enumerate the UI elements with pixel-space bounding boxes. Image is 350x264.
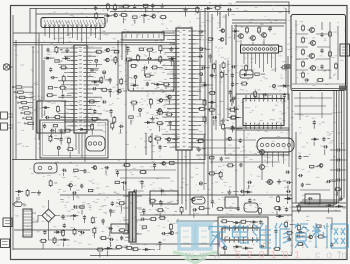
resistor R112 (55, 60, 59, 62)
resistor R173 (50, 179, 52, 181)
filter F1 (86, 136, 105, 151)
diode VD28 (42, 107, 45, 109)
module box A1 (291, 15, 346, 91)
resistor R179 (115, 181, 119, 183)
resistor R123 (125, 59, 127, 61)
wire underCN1L stubs (50, 49, 62, 61)
electrolytic C210 (57, 146, 60, 149)
resistor R119 (95, 51, 97, 53)
resistor R182 (197, 140, 199, 142)
resistor R117 (48, 87, 52, 89)
connector ticks on bus (330, 149, 346, 151)
wire leftCN2 stubs (205, 34, 235, 63)
resistor R120 (114, 51, 118, 53)
wire U3 box (225, 128, 289, 155)
capacitor C172 (109, 238, 111, 240)
capacitor C131 (231, 66, 233, 68)
wire U1 bottom drops (76, 133, 85, 162)
capacitor C179 (80, 232, 82, 234)
capacitor C111 (127, 46, 129, 48)
watermark book icon (179, 225, 193, 249)
capacitor C125 (143, 67, 145, 69)
electrolytic C204 (139, 109, 142, 112)
wire midS stubs (117, 163, 178, 196)
wire topA stubs (107, 5, 169, 24)
svg-text:www.520101.com: www.520101.com (185, 249, 350, 261)
capacitor C165 (301, 183, 303, 185)
diode VD33 (208, 101, 211, 103)
capacitor C139 (233, 107, 235, 109)
capacitor C121 (94, 109, 96, 111)
transistor V65 (228, 137, 232, 141)
capacitor C104 (134, 4, 136, 6)
ground (228, 190, 230, 193)
wire rightO stubs (202, 149, 248, 192)
wire Z1parts stubs (45, 110, 56, 133)
diode VD24 (62, 57, 65, 59)
resistor R145 (144, 75, 146, 77)
IC U4 (222, 228, 260, 240)
diode VD35 (281, 85, 284, 87)
capacitor C135 (283, 93, 285, 95)
capacitor C170 (111, 201, 113, 203)
capacitor C192 (260, 245, 262, 247)
transistor V44 (260, 150, 265, 155)
transistor V63 (69, 183, 73, 187)
capacitor C151 (133, 190, 135, 192)
capacitor C184 (44, 230, 46, 232)
capacitor CA2 (321, 49, 323, 51)
diode VD27 (232, 30, 235, 32)
capacitor C145 (84, 169, 86, 171)
capacitor C193 (275, 229, 277, 231)
connector XP2 (1, 123, 8, 130)
wire U3 enclosure (236, 94, 289, 130)
capacitor C112 (199, 31, 201, 33)
capacitor C182 (83, 215, 85, 217)
wire Z2parts stubs (134, 68, 166, 91)
resistor R125 (139, 48, 143, 50)
wire U1R-upper stubs (95, 70, 128, 97)
resistor R211 (221, 220, 223, 222)
ground (161, 3, 163, 5)
wire right bottom (300, 190, 332, 230)
resistor R141 (150, 98, 152, 100)
wire leftrow190 stubs (54, 183, 73, 200)
resistor R189 (92, 216, 94, 218)
resistor R218 (334, 188, 336, 190)
wire rail y43 (13, 42, 175, 44)
shield box Z3 (40, 120, 108, 158)
diode VD29 (91, 81, 94, 83)
capacitor C128 (201, 67, 203, 69)
transistor V64 (162, 162, 166, 166)
resistor R107 (120, 14, 122, 16)
IC U1 (74, 45, 87, 133)
diode VD51 (276, 215, 279, 217)
resistor R106 (133, 16, 137, 18)
resistor R127 (208, 38, 212, 40)
resistor R135 (130, 102, 132, 104)
electrolytic C202 (200, 48, 203, 51)
resistor R133 (101, 89, 103, 91)
diode VD25 (44, 57, 47, 59)
resistor R172 (74, 169, 78, 171)
diode VD52 (285, 197, 288, 199)
capacitor C181 (62, 214, 64, 216)
wire left verticals (12, 15, 14, 250)
transistor V60 (167, 138, 171, 142)
node J1 (339, 86, 347, 91)
connector XS1 (3, 218, 12, 227)
capacitor C158 (240, 163, 242, 165)
diode VD49 (242, 247, 245, 249)
wire leftU1 stubs (53, 78, 71, 96)
wire rightP stubs (303, 124, 329, 184)
resistor RA4 (302, 61, 304, 63)
resistor R185 (310, 165, 314, 167)
diode VD21 (141, 14, 144, 16)
capacitor C133 (231, 73, 233, 75)
capacitor C124 (146, 82, 148, 84)
module box N1 (122, 32, 164, 40)
wire power in (12, 197, 70, 240)
resistor R175 (27, 189, 29, 191)
transistor V62 (93, 166, 97, 170)
ground (278, 179, 280, 182)
resistor R219 (297, 243, 299, 245)
resistor R195 (149, 200, 151, 202)
transformer T1 (129, 192, 136, 242)
resistor RA5 (302, 72, 304, 74)
ground (38, 190, 40, 193)
wire pwrA stubs (64, 207, 85, 247)
diode VD40 (311, 138, 314, 140)
wire rbotB stubs (309, 182, 337, 214)
connector CN2 (241, 45, 279, 53)
ceramic filter Z4 (34, 163, 57, 173)
diode VD38 (15, 191, 18, 193)
resistor R142 (151, 66, 153, 68)
diode VD46 (284, 198, 287, 200)
resistor R187 (100, 237, 102, 239)
wire right bus (333, 91, 335, 206)
capacitor C119 (109, 78, 111, 80)
capacitor C180 (73, 206, 75, 208)
line filter T3 (23, 209, 32, 237)
resistor R137 (88, 100, 90, 102)
diode VD34 (201, 84, 204, 86)
resistor R146 (154, 138, 156, 140)
transistor V68 (223, 246, 227, 250)
capacitor C144 (104, 167, 106, 169)
diode VD44 (61, 239, 64, 241)
electrolytic C207 (230, 99, 233, 102)
resistor R136 (113, 116, 115, 118)
resistor ladder RN1 (14, 86, 16, 88)
wire U1 right fanout (91, 48, 103, 130)
resistor R180 (220, 171, 222, 173)
resistor R176 (168, 162, 170, 164)
resistor R114 (60, 66, 62, 68)
capacitor C186 (286, 207, 288, 209)
wire CN2 loop rails (232, 8, 286, 88)
diode VD22 (104, 15, 107, 17)
resistor R149 (165, 113, 167, 115)
capacitor C187 (211, 200, 213, 202)
electrolytic C205 (134, 75, 137, 78)
transistor VT4 (311, 66, 316, 71)
wire top verticals (29, 8, 31, 33)
transistor V70 (309, 235, 313, 239)
connector XS2 (1, 239, 10, 248)
transistor V67 (192, 198, 196, 202)
resistor R171 (49, 135, 51, 137)
capacitor C153 (160, 190, 162, 192)
transistor V46 (268, 180, 273, 185)
capacitor C122 (110, 109, 112, 111)
resistor R160 (223, 62, 225, 64)
wire U1R-lower stubs (92, 102, 160, 135)
diode VD42 (105, 247, 108, 249)
resistor R197 (96, 249, 98, 251)
capacitor CA3 (321, 65, 323, 67)
capacitor C107 (62, 94, 64, 96)
capacitor C188 (237, 206, 239, 208)
wire ladder bus (32, 85, 34, 130)
resistor R132 (100, 76, 102, 78)
resistor R102 (114, 4, 116, 5)
wire T1left stubs (94, 203, 129, 247)
module box Z1 (37, 101, 65, 133)
resistor R153 (229, 109, 231, 111)
capacitor C185 (192, 209, 194, 211)
transistor V53 (106, 58, 110, 62)
resistor R170 (64, 130, 65, 132)
capacitor C132 (210, 75, 212, 77)
capacitor C149 (122, 182, 124, 184)
transistor V54 (106, 48, 110, 52)
resistor R214 (273, 248, 275, 250)
wire U2R stubs (201, 68, 242, 129)
transistor V41 (239, 34, 244, 39)
resistor R202 (80, 206, 84, 208)
delay line DL1 (257, 138, 294, 152)
wire A2parts2 stubs (225, 247, 253, 254)
resistor R210 (277, 195, 279, 197)
ground (66, 48, 68, 51)
resistor R178 (139, 171, 141, 173)
wire rowV stubs (182, 199, 288, 217)
bridge VD4 (42, 209, 55, 222)
wire rightP rails (294, 92, 332, 120)
resistor R200 (132, 248, 134, 250)
resistor R91 (246, 26, 248, 28)
capacitor C159 (286, 181, 288, 183)
wire top rails (30, 8, 200, 10)
filter box Z2 (128, 60, 174, 91)
module box N4 (240, 70, 253, 78)
wire T1right stubs (144, 203, 179, 250)
resistor R151 (229, 117, 231, 119)
electrolytic C211 (199, 182, 202, 185)
capacitor C191 (260, 220, 262, 222)
capacitor C195 (326, 181, 328, 183)
capacitor C140 (60, 129, 62, 131)
ground (170, 47, 172, 50)
wire mid rails (12, 159, 205, 161)
diode VD48 (233, 222, 236, 224)
wire U2 left fanout (162, 31, 173, 147)
resistor R168 (67, 148, 69, 150)
resistor R163 (240, 83, 242, 85)
transistor V57 (118, 89, 122, 93)
resistor R92 (258, 26, 260, 28)
ground (152, 116, 154, 119)
capacitor C113 (198, 55, 200, 57)
resistor R129 (54, 116, 56, 118)
resistor R186 (118, 202, 120, 204)
electrolytic C212 (288, 238, 291, 241)
wire chain (262, 155, 274, 182)
transistor V61 (168, 95, 172, 99)
capacitor C110 (147, 58, 149, 60)
capacitor C157 (239, 138, 241, 140)
capacitor C190 (279, 207, 281, 209)
resistor R156 (204, 116, 206, 118)
resistor R147 (149, 135, 151, 137)
capacitor CA1 (321, 33, 323, 35)
resistor R115 (63, 75, 65, 77)
capacitor C196 (331, 243, 333, 245)
transistor V66 (170, 231, 174, 235)
diode VD43 (71, 215, 74, 217)
wire underN1 stubs (128, 49, 179, 66)
resistor R169 (68, 137, 70, 139)
wire rightO rails (196, 130, 256, 196)
resistor R126 (159, 56, 161, 58)
resistor R109 (196, 6, 198, 8)
transistor V56 (220, 38, 224, 42)
wire trio drops (241, 39, 264, 45)
resistor R150 (156, 112, 158, 114)
resistor R193 (159, 217, 161, 219)
IC U2 (176, 28, 192, 150)
capacitor C129 (212, 117, 214, 119)
capacitor C194 (308, 198, 310, 200)
rounded Z6 (244, 203, 258, 212)
resistor R188 (93, 227, 95, 229)
resistor R131 (120, 78, 122, 80)
capacitor C155 (220, 157, 222, 159)
resistor R184 (210, 157, 214, 159)
IC U3 (243, 99, 284, 126)
capacitor C146 (81, 184, 83, 186)
wire U3L stubs (232, 101, 241, 133)
resistor R148 (156, 122, 158, 124)
transistor V45 (260, 165, 265, 170)
capacitor C143 (62, 169, 64, 171)
resistor R103 (159, 16, 161, 18)
capacitor C116 (109, 88, 111, 90)
capacitor C91 (269, 26, 271, 28)
diode VD45 (54, 231, 57, 233)
capacitor C120 (102, 101, 104, 103)
ground (222, 118, 224, 121)
capacitor C118 (92, 88, 94, 90)
wire bottom rails (13, 248, 120, 250)
resistor R134 (91, 118, 93, 120)
electrolytic C209 (273, 84, 276, 87)
capacitor C197 (296, 235, 298, 237)
resistor R194 (170, 223, 172, 225)
resistor R217 (286, 232, 288, 234)
electrolytic C206 (232, 127, 235, 130)
capacitor C106 (47, 48, 49, 50)
inductor L1 (192, 197, 205, 204)
wire row168 stubs (63, 170, 106, 176)
capacitor C115 (44, 124, 46, 126)
capacitor C174 (159, 241, 161, 243)
capacitor C137 (231, 125, 233, 127)
diode VD53 (297, 231, 300, 233)
resistor R221 (298, 224, 300, 226)
wire A1 spine (292, 20, 345, 84)
crystal X1 (3, 64, 9, 70)
resistor R212 (240, 221, 242, 223)
electrolytic C208 (200, 73, 203, 76)
capacitor C134 (229, 90, 231, 92)
wire leftsmall stubs (18, 193, 36, 197)
resistor R110 (214, 7, 216, 9)
resistor R122 (137, 54, 139, 56)
capacitor C127 (169, 121, 171, 123)
wire bottom frame riser (218, 217, 292, 255)
resistor R213 (285, 221, 287, 223)
wire CN2 drops (244, 58, 275, 72)
capacitor C114 (45, 116, 47, 118)
resistor R205 (54, 237, 56, 239)
wire mid extra rails (115, 155, 288, 178)
wire DL1 drops (262, 157, 289, 167)
resistor R209 (216, 208, 218, 210)
resistor R192 (150, 218, 152, 220)
wire belowCN2 stubs (246, 70, 290, 102)
capacitor C142 (60, 137, 62, 139)
resistor R124 (159, 44, 161, 46)
wire underU1top stubs (96, 50, 116, 67)
diode VD37 (78, 128, 81, 130)
capacitor C168 (108, 228, 110, 230)
resistor R215 (298, 204, 300, 206)
electrolytic C201 (95, 59, 98, 62)
connector XP1 (1, 112, 8, 119)
diode VD50 (233, 246, 236, 248)
resistor R121 (146, 49, 148, 51)
wire U2R verticals (216, 60, 228, 130)
connector XA1 (340, 44, 350, 56)
resistor RA6 (329, 31, 331, 33)
resistor R222 (317, 236, 319, 238)
capacitor C163 (298, 175, 300, 177)
ground (340, 196, 342, 199)
diode VD23 (204, 7, 207, 9)
resistor R196 (157, 209, 159, 211)
resistor R159 (209, 92, 211, 94)
resistor R143 (130, 65, 132, 67)
resistor R191 (142, 226, 146, 228)
resistor RA9 (317, 79, 319, 81)
